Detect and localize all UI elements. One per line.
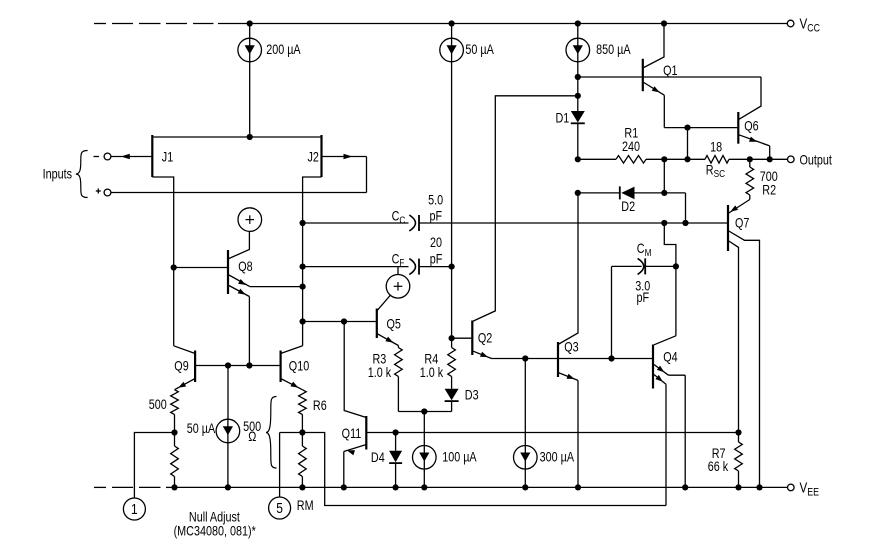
svg-text:D1: D1 bbox=[556, 110, 570, 125]
svg-text:R6: R6 bbox=[313, 398, 327, 413]
svg-text:D3: D3 bbox=[465, 387, 479, 402]
transistor Q11 bbox=[342, 416, 367, 450]
wire Q2 base bbox=[452, 337, 473, 339]
wire null adjust row bbox=[302, 433, 666, 506]
Q7 collector upper to VEE bbox=[729, 231, 760, 487]
wire J2 drain column to Q10 collector bbox=[300, 177, 322, 346]
transistor Q4 bbox=[653, 345, 678, 389]
diode D2 bbox=[620, 186, 635, 214]
wire CM left plate down to Q3/Q4 base row bbox=[608, 266, 614, 361]
svg-text:RM: RM bbox=[297, 498, 314, 513]
svg-text:Q3: Q3 bbox=[564, 339, 579, 354]
bias source above Q8 bbox=[229, 208, 262, 259]
wire second stage input (to Q2 collector) bbox=[472, 96, 578, 322]
wire 200uA to JFET sources bbox=[247, 62, 253, 141]
resistor R6 bbox=[299, 390, 327, 436]
wire Q1 emitter row to Q6 base bbox=[664, 125, 738, 131]
bias source above Q5 bbox=[377, 267, 410, 311]
Q4 emitter 1 to null network bbox=[654, 375, 666, 506]
wire Q2 emitter row to Q4 base bbox=[492, 355, 654, 361]
wire Q8 base bbox=[174, 267, 228, 269]
svg-text:D2: D2 bbox=[621, 199, 635, 214]
resistor R1 bbox=[578, 125, 665, 163]
Q11 collector bbox=[344, 322, 366, 418]
label 500 ohm tail resistors bbox=[243, 419, 261, 445]
svg-text:R2: R2 bbox=[762, 182, 776, 197]
Q8 emitter 2 down to Q9/Q10 base row bbox=[229, 286, 253, 369]
svg-text:1.0 k: 1.0 k bbox=[420, 365, 444, 380]
transistor Q2 bbox=[472, 321, 492, 356]
wire D3 to bottom row bbox=[451, 401, 453, 412]
svg-text:50 µA: 50 µA bbox=[465, 42, 494, 57]
resistor R7 bbox=[708, 433, 763, 491]
svg-text:240: 240 bbox=[622, 139, 640, 154]
current source 200uA bbox=[238, 20, 301, 61]
svg-text:D4: D4 bbox=[371, 450, 385, 465]
wire D2 to Q7 base corner bbox=[635, 193, 686, 223]
current source 300uA bbox=[514, 359, 575, 491]
Q2 emitter bbox=[472, 351, 491, 359]
svg-text:18: 18 bbox=[710, 139, 722, 154]
Q6 emitter bbox=[739, 135, 770, 160]
terminal 5 bbox=[269, 497, 291, 519]
Q3 emitter bbox=[558, 373, 581, 491]
wire down to output row bbox=[687, 128, 689, 160]
wire CM right down to Q4 collector bbox=[654, 266, 676, 344]
svg-text:Q10: Q10 bbox=[289, 358, 310, 373]
svg-text:Q11: Q11 bbox=[342, 426, 362, 441]
svg-text:pF: pF bbox=[429, 208, 442, 223]
svg-text:Q9: Q9 bbox=[174, 358, 189, 373]
svg-text:66 k: 66 k bbox=[708, 459, 729, 474]
wire null terminal 5 bbox=[280, 433, 303, 498]
svg-text:20: 20 bbox=[430, 235, 442, 250]
transistor Q1 bbox=[643, 59, 678, 91]
resistor RSC bbox=[705, 139, 729, 179]
svg-text:300 µA: 300 µA bbox=[540, 449, 575, 464]
Q3 collector riser bbox=[558, 193, 578, 345]
Q10 collector bbox=[281, 346, 303, 354]
jfet J2 bbox=[307, 135, 321, 177]
svg-text:J2: J2 bbox=[307, 149, 319, 164]
svg-text:Q7: Q7 bbox=[735, 215, 750, 230]
wire Q7 base node down to CM bbox=[664, 223, 679, 270]
Q4 emitter 2 to VEE bbox=[654, 365, 688, 491]
svg-text:Q6: Q6 bbox=[744, 118, 759, 133]
svg-text:5: 5 bbox=[276, 500, 283, 517]
Q9 collector bbox=[174, 346, 195, 354]
inverting input terminal bbox=[94, 153, 111, 160]
transistor Q9 bbox=[174, 351, 195, 383]
resistor 500 lower (to VEE) bbox=[171, 433, 179, 491]
svg-text:500: 500 bbox=[149, 397, 167, 412]
wire R1 node to D2 node bbox=[661, 159, 667, 196]
wire J1 drain to Q9 collector column bbox=[152, 177, 176, 346]
Q8 emitter 1 to J2 column bbox=[229, 275, 303, 287]
transistor Q10 bbox=[281, 351, 310, 383]
svg-text:J1: J1 bbox=[162, 149, 174, 164]
capacitor CM bbox=[612, 241, 676, 305]
VEE terminal bbox=[788, 479, 820, 498]
Q7 collector lower to R7 node bbox=[729, 241, 742, 436]
transistor Q6 bbox=[738, 112, 758, 144]
transistor Q5 bbox=[377, 309, 401, 339]
svg-text:Q1: Q1 bbox=[663, 63, 678, 78]
Q11 base row to R7 bbox=[366, 429, 738, 435]
VCC terminal bbox=[787, 15, 820, 34]
wire Q1 collector to VCC bbox=[644, 20, 667, 67]
transistor Q8 bbox=[228, 250, 253, 294]
VCC rail (dashed left section) bbox=[94, 23, 214, 25]
brace 500 ohm bbox=[266, 397, 277, 469]
brace inputs bbox=[76, 151, 88, 198]
svg-text:1: 1 bbox=[131, 501, 138, 518]
Q6 collector bbox=[739, 77, 761, 119]
svg-text:Output: Output bbox=[800, 152, 833, 167]
terminal 1 bbox=[123, 498, 145, 520]
svg-text:5.0: 5.0 bbox=[428, 192, 443, 207]
Q7 emitter wire bbox=[729, 195, 750, 213]
transistor Q3 bbox=[558, 339, 579, 377]
wire D1 node to D2 bbox=[575, 190, 620, 196]
capacitor CF bbox=[303, 235, 452, 275]
label Null Adjust bbox=[174, 509, 256, 539]
svg-text:(MC34080, 081)*: (MC34080, 081)* bbox=[174, 523, 256, 538]
current source 50uA (tail) bbox=[187, 366, 240, 491]
svg-text:Q4: Q4 bbox=[663, 349, 678, 364]
wire Q9/Q10 base row bbox=[195, 362, 281, 368]
diode D1 bbox=[556, 110, 585, 125]
resistor R3 bbox=[368, 346, 402, 412]
diode D3 bbox=[445, 387, 479, 402]
output terminal bbox=[788, 152, 833, 167]
Q11 emitter bbox=[341, 445, 367, 491]
wire D1 to R1 node bbox=[575, 123, 581, 162]
wire null terminal 1 bbox=[134, 433, 174, 499]
wire Q5 base row bbox=[303, 318, 377, 324]
Q10 emitter bbox=[281, 379, 303, 390]
VEE rail bbox=[174, 486, 788, 488]
current source 50uA (input cascode) bbox=[440, 20, 495, 61]
svg-text:1.0 k: 1.0 k bbox=[368, 365, 392, 380]
resistor R4 bbox=[420, 338, 456, 389]
resistor RM (to VEE) bbox=[297, 433, 314, 514]
diode D4 bbox=[371, 433, 402, 491]
Q5 emitter to R3 bbox=[377, 334, 399, 346]
wire RSC to output bbox=[729, 156, 788, 162]
svg-text:Inputs: Inputs bbox=[43, 166, 72, 181]
wire J2 gate loop bbox=[322, 154, 367, 193]
VEE rail (dashed left section) bbox=[94, 486, 174, 488]
resistor 500 (Q9 emitter) bbox=[149, 390, 179, 436]
current source 100uA bbox=[413, 412, 478, 491]
svg-text:Q8: Q8 bbox=[238, 259, 253, 274]
label Inputs bbox=[43, 166, 72, 181]
wire non-inverting input row bbox=[111, 192, 367, 194]
wire JFET common source bus bbox=[152, 136, 321, 138]
wire 50uA column down to Q2 base node bbox=[449, 62, 455, 342]
svg-text:pF: pF bbox=[430, 251, 443, 266]
svg-text:Ω: Ω bbox=[248, 429, 256, 444]
svg-text:Q2: Q2 bbox=[478, 330, 493, 345]
wire R3/D3 bottom row bbox=[398, 408, 451, 414]
Q9 emitter bbox=[175, 379, 196, 390]
wire inverting input to J1 gate bbox=[111, 154, 152, 160]
wire Q1 base row to Q6 collector riser bbox=[578, 76, 761, 78]
transistor Q7 bbox=[728, 205, 750, 251]
current source 850uA bbox=[566, 20, 631, 61]
svg-text:pF: pF bbox=[636, 290, 649, 305]
non-inverting input terminal bbox=[96, 189, 111, 196]
svg-text:50 µA: 50 µA bbox=[187, 421, 216, 436]
wire output row mid bbox=[661, 156, 705, 162]
Q1 emitter bbox=[644, 83, 665, 128]
capacitor CC bbox=[303, 192, 728, 231]
dots on Q7 base row bbox=[661, 220, 688, 226]
svg-text:200 µA: 200 µA bbox=[266, 42, 301, 57]
VCC rail bbox=[218, 23, 787, 25]
svg-text:100 µA: 100 µA bbox=[442, 449, 477, 464]
wire 850uA to D1 node bbox=[575, 62, 581, 112]
jfet J1 bbox=[152, 135, 173, 177]
svg-text:Q5: Q5 bbox=[387, 316, 402, 331]
svg-text:850 µA: 850 µA bbox=[596, 42, 631, 57]
resistor R2 bbox=[746, 159, 778, 198]
